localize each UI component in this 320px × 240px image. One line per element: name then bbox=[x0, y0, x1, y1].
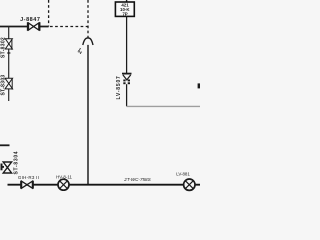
valve GIH-R3 (gate valve) bbox=[21, 181, 33, 189]
off-page connector box 421 10-K 7P bbox=[115, 2, 134, 16]
exhaust head / bell symbol bbox=[83, 38, 93, 45]
valve ST-8304 (vertical globe valve with handle) bbox=[1, 162, 12, 173]
arrowhead blob at right edge bbox=[198, 83, 200, 88]
svg-text:LV-8507: LV-8507 bbox=[116, 75, 122, 99]
svg-text:ST-8302: ST-8302 bbox=[1, 37, 7, 58]
valve ST-8302 (vertical gate valve) bbox=[5, 39, 12, 50]
svg-text:LV-881: LV-881 bbox=[176, 171, 190, 176]
wire: stub above connector box bbox=[126, 0, 128, 2]
wire: top horizontal process line bbox=[0, 26, 49, 28]
valve J-8847 (gate valve with flanges) bbox=[28, 22, 40, 31]
tick below valve ST-8302 bbox=[7, 52, 10, 54]
valve ST-8303 (vertical gate valve) bbox=[5, 78, 13, 89]
wire: main vertical process line bbox=[87, 45, 89, 185]
wire: dashed vertical signal line (left) bbox=[48, 0, 50, 27]
wire: gray horizontal line to right edge bbox=[127, 105, 200, 107]
wire: vertical line below check valve bbox=[126, 84, 128, 106]
valve HV (plug valve, circle-X) bbox=[58, 179, 69, 190]
wire: bottom horizontal process line bbox=[8, 184, 201, 186]
wire: vertical line from connector box bbox=[126, 16, 128, 73]
wire: dashed vertical signal line (center) bbox=[87, 0, 89, 39]
svg-text:2T-WC-758S: 2T-WC-758S bbox=[123, 177, 151, 182]
svg-text:J-8847: J-8847 bbox=[20, 17, 40, 23]
svg-text:7P: 7P bbox=[122, 11, 127, 16]
svg-text:ST-8303: ST-8303 bbox=[0, 74, 6, 95]
check valve below box bbox=[122, 74, 132, 80]
svg-text:GIH-R3 II: GIH-R3 II bbox=[18, 175, 39, 180]
wire: dashed horizontal signal line bbox=[50, 26, 88, 28]
wire: left vertical branch line bbox=[8, 27, 10, 102]
valve LV-881 (plug valve, circle-X) bbox=[184, 179, 195, 190]
svg-text:ST-8304: ST-8304 bbox=[13, 151, 19, 175]
wire: bottom-left stub line bbox=[0, 144, 10, 146]
svg-text:HV-8-11: HV-8-11 bbox=[56, 174, 72, 179]
